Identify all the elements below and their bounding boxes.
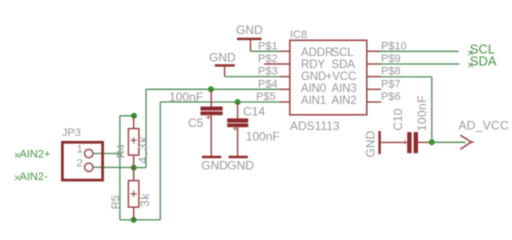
pin P$10 lead bbox=[367, 50, 381, 52]
pin P$2 lead (stub) bbox=[264, 63, 290, 65]
svg-text:AIN0: AIN0 bbox=[301, 83, 326, 95]
wire net GND2 to pin P$3 bbox=[225, 76, 281, 78]
junction above R4 bbox=[131, 113, 137, 119]
svg-text:GND: GND bbox=[236, 23, 263, 37]
svg-text:ADDR: ADDR bbox=[301, 47, 333, 59]
svg-text:100nF: 100nF bbox=[169, 90, 203, 104]
ground GND2 (to P$3) bbox=[209, 51, 236, 77]
pin P$7 lead (stub) bbox=[367, 88, 381, 90]
pin P$8 lead bbox=[367, 76, 381, 78]
svg-text:P$6: P$6 bbox=[381, 91, 401, 103]
net label SCL bbox=[468, 41, 495, 56]
svg-text:AIN2+: AIN2+ bbox=[20, 148, 51, 160]
svg-text:C10: C10 bbox=[391, 108, 405, 130]
svg-text:C14: C14 bbox=[243, 105, 265, 119]
svg-text:P$8: P$8 bbox=[381, 66, 401, 78]
wire net SCL bbox=[380, 50, 459, 52]
svg-text:P$3: P$3 bbox=[258, 66, 278, 78]
svg-text:GND: GND bbox=[363, 131, 377, 158]
junction C10 / AD_VCC node bbox=[429, 139, 435, 145]
svg-text:C5: C5 bbox=[188, 116, 204, 130]
wire to AD_VCC arrow bbox=[432, 141, 466, 143]
wire net AIN1: pin P$5 left then down to bottom rail bbox=[120, 102, 281, 220]
svg-text:4,3k: 4,3k bbox=[136, 135, 150, 164]
cross mark at pin1 wire junction bbox=[117, 151, 122, 156]
svg-text:+VCC: +VCC bbox=[326, 71, 357, 83]
svg-text:P$2: P$2 bbox=[258, 53, 278, 65]
ground GND1 (top, to P$1) bbox=[236, 23, 263, 51]
capacitor C5 bbox=[169, 86, 223, 157]
net label AIN2+ bbox=[15, 148, 50, 160]
svg-text:2: 2 bbox=[77, 157, 83, 169]
supply symbol AD_VCC (arrow) bbox=[459, 118, 510, 149]
capacitor C10 bbox=[381, 95, 430, 153]
junction R4/R5 midpoint bbox=[131, 165, 137, 171]
svg-text:GND: GND bbox=[201, 158, 228, 172]
svg-text:GND: GND bbox=[209, 51, 236, 65]
ground left of C10 (rotated) bbox=[363, 131, 379, 158]
svg-text:GND: GND bbox=[301, 71, 326, 83]
svg-text:ADS1113: ADS1113 bbox=[290, 119, 340, 133]
pin P$9 lead bbox=[367, 63, 381, 65]
pin P$1 lead bbox=[280, 50, 290, 52]
svg-text:AIN2: AIN2 bbox=[332, 95, 357, 107]
svg-text:SCL: SCL bbox=[332, 47, 355, 59]
svg-text:P$9: P$9 bbox=[381, 53, 401, 65]
capacitor C14 bbox=[227, 99, 280, 157]
svg-text:AIN1: AIN1 bbox=[301, 95, 326, 107]
resistor R5 bbox=[110, 168, 152, 220]
svg-text:P$7: P$7 bbox=[381, 78, 401, 90]
net label AIN2- bbox=[15, 171, 48, 183]
svg-text:P$1: P$1 bbox=[258, 40, 278, 52]
svg-text:RDY: RDY bbox=[301, 59, 325, 71]
svg-text:AD_VCC: AD_VCC bbox=[459, 118, 510, 132]
svg-text:1: 1 bbox=[77, 144, 83, 156]
pin P$3 lead bbox=[280, 76, 290, 78]
pin P$6 lead (stub) bbox=[367, 101, 381, 103]
junction R5 bottom bbox=[131, 217, 137, 223]
wire net AIN0: pin P$4 left then down to R4/R5 midpoint bbox=[134, 89, 281, 167]
svg-text:100nF: 100nF bbox=[246, 130, 280, 144]
svg-text:P$4: P$4 bbox=[258, 78, 278, 90]
IC8 pin names right column bbox=[326, 47, 357, 107]
svg-text:IC8: IC8 bbox=[290, 29, 307, 41]
wire net AD_VCC: P$8 right then down to C10 node bbox=[380, 77, 432, 142]
pin P$4 lead bbox=[280, 88, 290, 90]
svg-text:3k: 3k bbox=[138, 193, 152, 207]
IC8 pin names left column bbox=[301, 47, 333, 107]
wire AIN2+ vertical from JP3 pin1 up to R4 top bbox=[120, 116, 134, 220]
svg-text:P$10: P$10 bbox=[381, 40, 407, 52]
wire net SDA bbox=[380, 63, 460, 65]
ground below C14 bbox=[227, 157, 254, 172]
pin P$5 lead bbox=[280, 101, 290, 103]
svg-text:JP3: JP3 bbox=[62, 127, 81, 139]
svg-text:SDA: SDA bbox=[332, 59, 356, 71]
resistor R4 bbox=[116, 116, 151, 168]
wire JP3 pin2 to midpoint junction bbox=[93, 166, 134, 168]
connector JP3 bbox=[62, 127, 103, 180]
net label SDA bbox=[468, 53, 497, 68]
wire net GND1 to pin P$1 bbox=[251, 50, 282, 52]
svg-text:R5: R5 bbox=[110, 195, 122, 209]
op-amp/IC U: ADS1113 IC8 body bbox=[290, 29, 367, 133]
svg-text:R4: R4 bbox=[116, 144, 128, 158]
ground below C5 bbox=[201, 157, 228, 172]
svg-text:AIN2-: AIN2- bbox=[20, 171, 48, 183]
svg-text:P$5: P$5 bbox=[256, 91, 276, 103]
svg-text:AIN3: AIN3 bbox=[332, 83, 357, 95]
svg-text:SDA: SDA bbox=[470, 53, 497, 68]
wire JP3 pin1 bbox=[93, 153, 120, 155]
svg-text:GND: GND bbox=[227, 158, 254, 172]
svg-text:100nF: 100nF bbox=[415, 95, 429, 131]
